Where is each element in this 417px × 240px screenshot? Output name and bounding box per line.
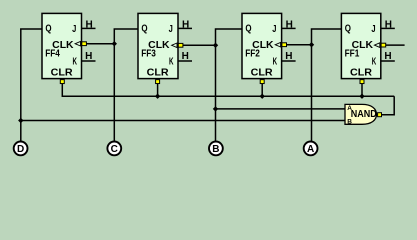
svg-text:FF2: FF2: [245, 49, 260, 60]
svg-text:H: H: [86, 19, 93, 30]
svg-text:K: K: [273, 57, 278, 68]
svg-text:FF4: FF4: [45, 49, 60, 60]
junction FF3 CLR on bus: [155, 94, 160, 99]
K pin tie-high stub FF4: [82, 60, 96, 62]
CLR pin dot FF4: [60, 80, 64, 84]
wire node D to NAND input B: [21, 120, 345, 122]
CLR pin dot FF1: [360, 80, 364, 84]
wire FF4 CLR drop to CLR bus: [62, 83, 394, 96]
CLR pin dot FF2: [260, 80, 264, 84]
svg-text:CLR: CLR: [147, 68, 170, 79]
wire node B to NAND input A: [216, 108, 346, 110]
svg-text:C: C: [111, 144, 118, 155]
wire Q of FF3 to node C: [114, 29, 138, 142]
wire Q of FF4 to node D: [21, 29, 42, 142]
svg-text:H: H: [286, 19, 293, 30]
junction node D / NAND B: [18, 118, 23, 123]
svg-text:J: J: [371, 24, 375, 35]
svg-text:NAND: NAND: [351, 109, 377, 120]
wire FF2 CLR drop: [261, 83, 263, 96]
CLK pin dot FF4: [82, 42, 87, 46]
CLK pin dot FF1: [381, 43, 386, 47]
svg-text:FF1: FF1: [345, 49, 360, 60]
wire FF1 CLR drop: [361, 83, 363, 96]
svg-text:H: H: [285, 51, 292, 62]
svg-text:B: B: [212, 144, 219, 155]
junction FF2 CLK / node A: [309, 42, 314, 47]
K pin tie-high stub FF1: [381, 60, 395, 62]
junction FF2 CLR on bus: [260, 94, 265, 99]
svg-text:H: H: [85, 51, 92, 62]
node A output terminal: [304, 142, 318, 156]
svg-text:Q: Q: [141, 24, 147, 35]
NAND output inverter dot: [378, 113, 382, 117]
svg-text:J: J: [169, 24, 173, 35]
node D output terminal: [14, 142, 28, 156]
K pin tie-high stub FF2: [282, 60, 296, 62]
svg-text:K: K: [73, 57, 78, 68]
flip-flop FF2: [242, 13, 282, 78]
svg-text:H: H: [385, 19, 392, 30]
svg-text:J: J: [72, 24, 76, 35]
CLK pin dot FF2: [282, 43, 287, 47]
wire FF1 Q to FF2 CLK: [287, 44, 312, 46]
wire Q of FF2 to node B: [216, 29, 243, 142]
junction node B / NAND A: [213, 106, 218, 111]
flip-flop FF4: [42, 13, 82, 78]
svg-text:CLR: CLR: [350, 68, 373, 79]
wire Q of FF1 to node A: [312, 29, 342, 142]
CLK pin dot FF3: [178, 43, 183, 47]
J pin tie-high stub FF4: [82, 27, 96, 29]
svg-text:H: H: [384, 51, 391, 62]
junction FF1 CLR on bus: [359, 94, 364, 99]
external clock stub to FF1 CLK: [386, 44, 405, 46]
J pin tie-high stub FF1: [381, 27, 395, 29]
wire FF3 CLR drop: [157, 83, 159, 96]
svg-text:H: H: [182, 19, 189, 30]
wire FF2 Q to FF3 CLK: [183, 44, 216, 46]
svg-text:CLR: CLR: [51, 68, 74, 79]
wire FF3 Q to FF4 CLK: [86, 43, 114, 45]
svg-text:CLR: CLR: [251, 68, 274, 79]
svg-text:H: H: [182, 51, 189, 62]
node B output terminal: [209, 142, 223, 156]
svg-text:FF3: FF3: [141, 49, 156, 60]
junction FF4 CLK / node C: [112, 41, 117, 46]
svg-text:Q: Q: [345, 24, 351, 35]
svg-text:A: A: [307, 144, 314, 155]
flip-flop FF1: [341, 13, 380, 78]
svg-text:Q: Q: [45, 24, 51, 35]
NAND gate U1: [345, 104, 377, 125]
svg-text:D: D: [17, 144, 24, 155]
junction FF3 CLK / node B: [213, 43, 218, 48]
J pin tie-high stub FF2: [282, 27, 296, 29]
svg-text:J: J: [272, 24, 276, 35]
svg-text:K: K: [169, 57, 174, 68]
CLR pin dot FF3: [156, 80, 160, 84]
svg-text:Q: Q: [245, 24, 251, 35]
node C output terminal: [107, 142, 121, 156]
svg-text:K: K: [372, 57, 377, 68]
wire NAND output to CLR bus: [382, 96, 395, 115]
flip-flop FF3: [138, 13, 178, 78]
K pin tie-high stub FF3: [178, 60, 192, 62]
J pin tie-high stub FF3: [178, 27, 192, 29]
